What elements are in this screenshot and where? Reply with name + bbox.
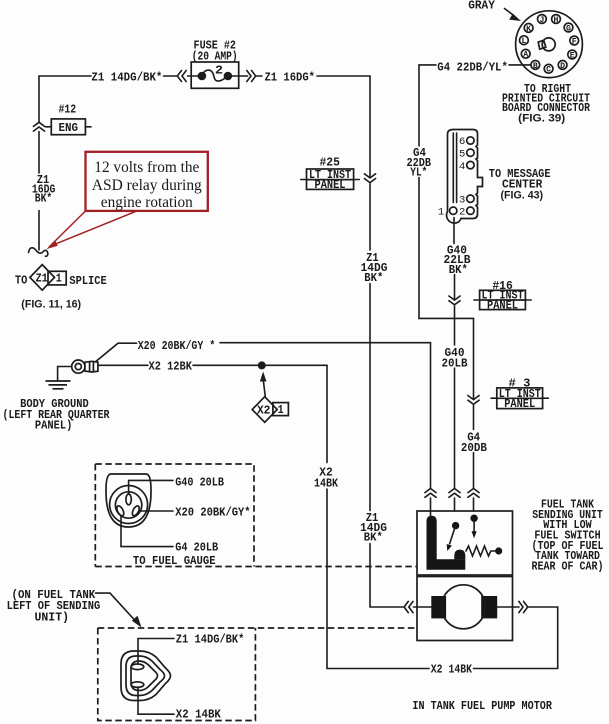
connector #12 ENG box: [46, 119, 91, 135]
label #12 ENG: [59, 103, 79, 135]
svg-text:YL*: YL*: [410, 166, 427, 180]
labels round connector pin letters: [520, 15, 579, 75]
svg-text:1: 1: [438, 206, 444, 218]
connector in-line chevrons at #16 (pointing down): [449, 296, 460, 305]
label #25 LT INST PANEL: [309, 156, 352, 193]
svg-text:Z1: Z1: [35, 272, 48, 286]
round PCB connector (gray): [505, 9, 583, 78]
wire G4 vertical x=473.5 down to #3 and sending unit: [473, 318, 475, 511]
node junction X2: [258, 361, 266, 369]
wire Z1 vertical x=370: [370, 76, 403, 607]
label wire G4 22DB/YL: [437, 60, 508, 74]
svg-text:G40 20LB: G40 20LB: [175, 475, 224, 489]
svg-text:UNIT): UNIT): [35, 610, 70, 624]
svg-text:ASD relay during: ASD relay during: [92, 177, 202, 194]
svg-text:TO: TO: [15, 274, 28, 288]
label wire Z1 16DG BK (vertical stack): [32, 173, 56, 205]
svg-text:X2 12BK: X2 12BK: [149, 360, 193, 374]
note (ON FUEL TANK LEFT OF SENDING UNIT): [7, 588, 101, 624]
label IN TANK FUEL PUMP MOTOR: [412, 699, 552, 713]
svg-text:G: G: [566, 24, 571, 33]
label wire G4 20DB (stack): [461, 431, 488, 456]
svg-text:20DB: 20DB: [461, 441, 488, 455]
svg-text:G4 20LB: G4 20LB: [175, 541, 218, 555]
connector in-line chevrons at #3 (pointing down): [468, 396, 479, 405]
svg-text:X2 14BK: X2 14BK: [431, 663, 473, 677]
svg-text:BK*: BK*: [35, 191, 53, 205]
label wire X2 14BK (vertical stack): [314, 466, 338, 491]
svg-text:6: 6: [459, 136, 465, 148]
red callout box (12 volts note): [46, 152, 208, 249]
ring terminal eyelet: [72, 360, 98, 373]
splice X2 diamond symbol with arrow to junction: [252, 372, 288, 423]
svg-text:L: L: [521, 37, 526, 46]
wire X20 20BK/GY horizontal y=342.7: [96, 343, 431, 362]
connector in-line pump-right chevrons: [513, 601, 528, 612]
labels fuel gauge connector pins: [133, 475, 251, 568]
svg-text:E: E: [570, 51, 575, 60]
svg-text:engine rotation: engine rotation: [101, 194, 193, 211]
connector in-line fuse-right chevrons: [239, 71, 262, 82]
svg-text:B: B: [533, 62, 538, 71]
wire top-left Z1 vertical x=39: [38, 76, 40, 243]
svg-text:Z1 16DG*: Z1 16DG*: [265, 70, 316, 84]
label BODY GROUND (LEFT REAR QUARTER PANEL): [3, 397, 110, 432]
label wire Z1 14DG BK (upper stack): [361, 251, 388, 285]
svg-text:K: K: [526, 25, 531, 34]
fuse F2 (FUSE #2 20 AMP): [191, 62, 239, 88]
svg-text:TO FUEL GAUGE: TO FUEL GAUGE: [133, 554, 216, 568]
label wire X2 14BK bottom: [431, 663, 473, 677]
label wire X2 12BK: [149, 360, 193, 374]
label TO MESSAGE CENTER: [489, 167, 551, 191]
sending unit: thick ground bar L-shape: [427, 516, 466, 570]
svg-text:X2: X2: [257, 404, 271, 418]
connector chevrons entering sending unit (three, pointing up): [425, 489, 479, 498]
svg-text:D: D: [560, 62, 565, 71]
svg-text:PANEL: PANEL: [487, 299, 518, 313]
svg-text:A: A: [523, 51, 528, 60]
svg-text:IN TANK FUEL PUMP MOTOR: IN TANK FUEL PUMP MOTOR: [412, 699, 552, 713]
label TO Z1 1 SPLICE: [15, 271, 107, 288]
wire Z1 14DG/BK top horizontal: [39, 75, 191, 77]
label wire Z1 16DG: [265, 70, 316, 84]
label splice X2 1: [257, 403, 284, 417]
svg-text:H: H: [554, 16, 559, 25]
label #16 LT INST PANEL: [482, 279, 525, 312]
wire X2 14BK bottom horizontal and up to pump: [474, 607, 558, 669]
label FUSE #2 (20 AMP): [192, 39, 238, 78]
svg-text:1: 1: [278, 403, 284, 417]
svg-text:12 volts from the: 12 volts from the: [94, 159, 199, 176]
svg-text:PANEL): PANEL): [35, 419, 73, 433]
svg-text:G4 22DB/YL*: G4 22DB/YL*: [437, 60, 508, 74]
sending unit: low fuel switch arm and contact: [447, 522, 460, 551]
wire Z1 16DG to corner: [317, 75, 370, 77]
ground wire from ring terminal: [58, 367, 72, 381]
label (FIG. 39): [518, 113, 565, 125]
connector in-line pump-left chevrons: [404, 601, 417, 612]
connector in-line chevrons at #25 (pointing down): [364, 174, 375, 183]
splice Z1 diamond symbol: [30, 265, 66, 291]
svg-text:X20 20BK/GY *: X20 20BK/GY *: [138, 339, 216, 353]
connector #25 LT INST PANEL box: [301, 169, 360, 189]
label (FIG. 43): [501, 189, 544, 201]
fuel tank dashed box (bottom): [98, 628, 417, 721]
connector in-line chevrons at ENG (pointing up): [33, 122, 44, 131]
svg-text:GRAY: GRAY: [468, 0, 495, 12]
label wire G40 22LB BK (stack): [444, 244, 472, 278]
label wire X20 20BK/GY: [138, 339, 216, 353]
svg-text:X20 20BK/GY*: X20 20BK/GY*: [175, 505, 250, 519]
svg-text:(FIG. 11, 16): (FIG. 11, 16): [21, 299, 81, 311]
wire end squiggle (to splice): [29, 243, 48, 256]
svg-text:F: F: [572, 37, 577, 46]
svg-text:20LB: 20LB: [442, 356, 469, 370]
wire X2 12BK horizontal y=365: [98, 364, 327, 366]
svg-text:C: C: [546, 66, 551, 75]
arrow from ON FUEL TANK note to dashed box: [96, 593, 142, 627]
fuel gauge round connector: [106, 474, 173, 547]
connector #16 LT INST PANEL box: [474, 290, 531, 309]
label GRAY: [468, 0, 495, 12]
wire G40 22LB/BK vertical x=454.5 from message center pin1: [453, 218, 456, 512]
svg-text:14BK: 14BK: [314, 477, 338, 491]
svg-text:ENG: ENG: [59, 121, 79, 135]
svg-text:BK*: BK*: [364, 271, 383, 285]
wire X2 14BK vertical x=327: [327, 365, 429, 668]
note text 12 volts from the ASD relay: [92, 159, 202, 211]
svg-text:#12: #12: [59, 103, 77, 117]
svg-text:Z1 14DG/BK*: Z1 14DG/BK*: [176, 633, 245, 647]
fuel tank sending unit box: [417, 511, 513, 575]
svg-text:PANEL: PANEL: [315, 178, 346, 192]
svg-text:1: 1: [56, 271, 62, 285]
svg-text:(FIG. 43): (FIG. 43): [501, 189, 544, 201]
svg-text:REAR OF CAR): REAR OF CAR): [532, 559, 604, 573]
wire X20 vertical x=430.5 to sending unit: [430, 343, 432, 516]
svg-text:3: 3: [459, 194, 465, 206]
svg-text:X2 14BK: X2 14BK: [176, 707, 222, 721]
labels message center pin numbers: [438, 136, 466, 218]
svg-text:BK*: BK*: [449, 263, 468, 277]
svg-text:Z1 14DG/BK*: Z1 14DG/BK*: [91, 70, 162, 84]
labels fuel tank connector pins: [176, 633, 245, 722]
label wire Z1 14DG BK (lower stack): [360, 511, 387, 544]
ground symbol (body ground): [46, 381, 71, 389]
label FUEL TANK SENDING UNIT WITH LOW FUEL SWITCH: [532, 498, 604, 574]
wire G4 22DB/YL horizontal to PCB connector: [419, 64, 531, 66]
label (FIG. 11, 16): [21, 299, 81, 311]
sending unit: resistor zigzag: [466, 546, 502, 556]
label #3 LT INST PANEL: [499, 376, 542, 411]
message center connector body: [447, 130, 483, 224]
label TO RIGHT PRINTED CIRCUIT BOARD CONNECTOR: [502, 82, 590, 115]
svg-text:PANEL: PANEL: [504, 397, 535, 411]
connector in-line fuse-left chevrons: [177, 71, 186, 82]
connector #3 LT INST PANEL box: [491, 388, 548, 409]
fuel gauge dashed box: [95, 464, 417, 567]
svg-text:SPLICE: SPLICE: [69, 274, 106, 288]
svg-text:2: 2: [215, 63, 223, 77]
label wire G40 20LB (stack): [442, 346, 469, 371]
svg-text:4: 4: [459, 161, 465, 173]
svg-text:5: 5: [459, 148, 465, 160]
fuel tank triangular connector (2-pin): [121, 639, 174, 715]
sending unit: gauge wiper arrow: [470, 515, 477, 539]
in-tank fuel pump motor box: [417, 577, 513, 641]
svg-text:J: J: [539, 16, 544, 25]
label wire G4 22DB YL (vertical stack): [407, 146, 432, 179]
wire G4 22DB/YL vertical x=419: [419, 65, 474, 319]
svg-text:2: 2: [459, 206, 465, 218]
svg-text:(FIG. 39): (FIG. 39): [518, 113, 565, 125]
svg-text:(20 AMP): (20 AMP): [192, 50, 238, 64]
svg-text:BK*: BK*: [364, 531, 383, 545]
label wire Z1 14DG/BK: [91, 70, 162, 84]
